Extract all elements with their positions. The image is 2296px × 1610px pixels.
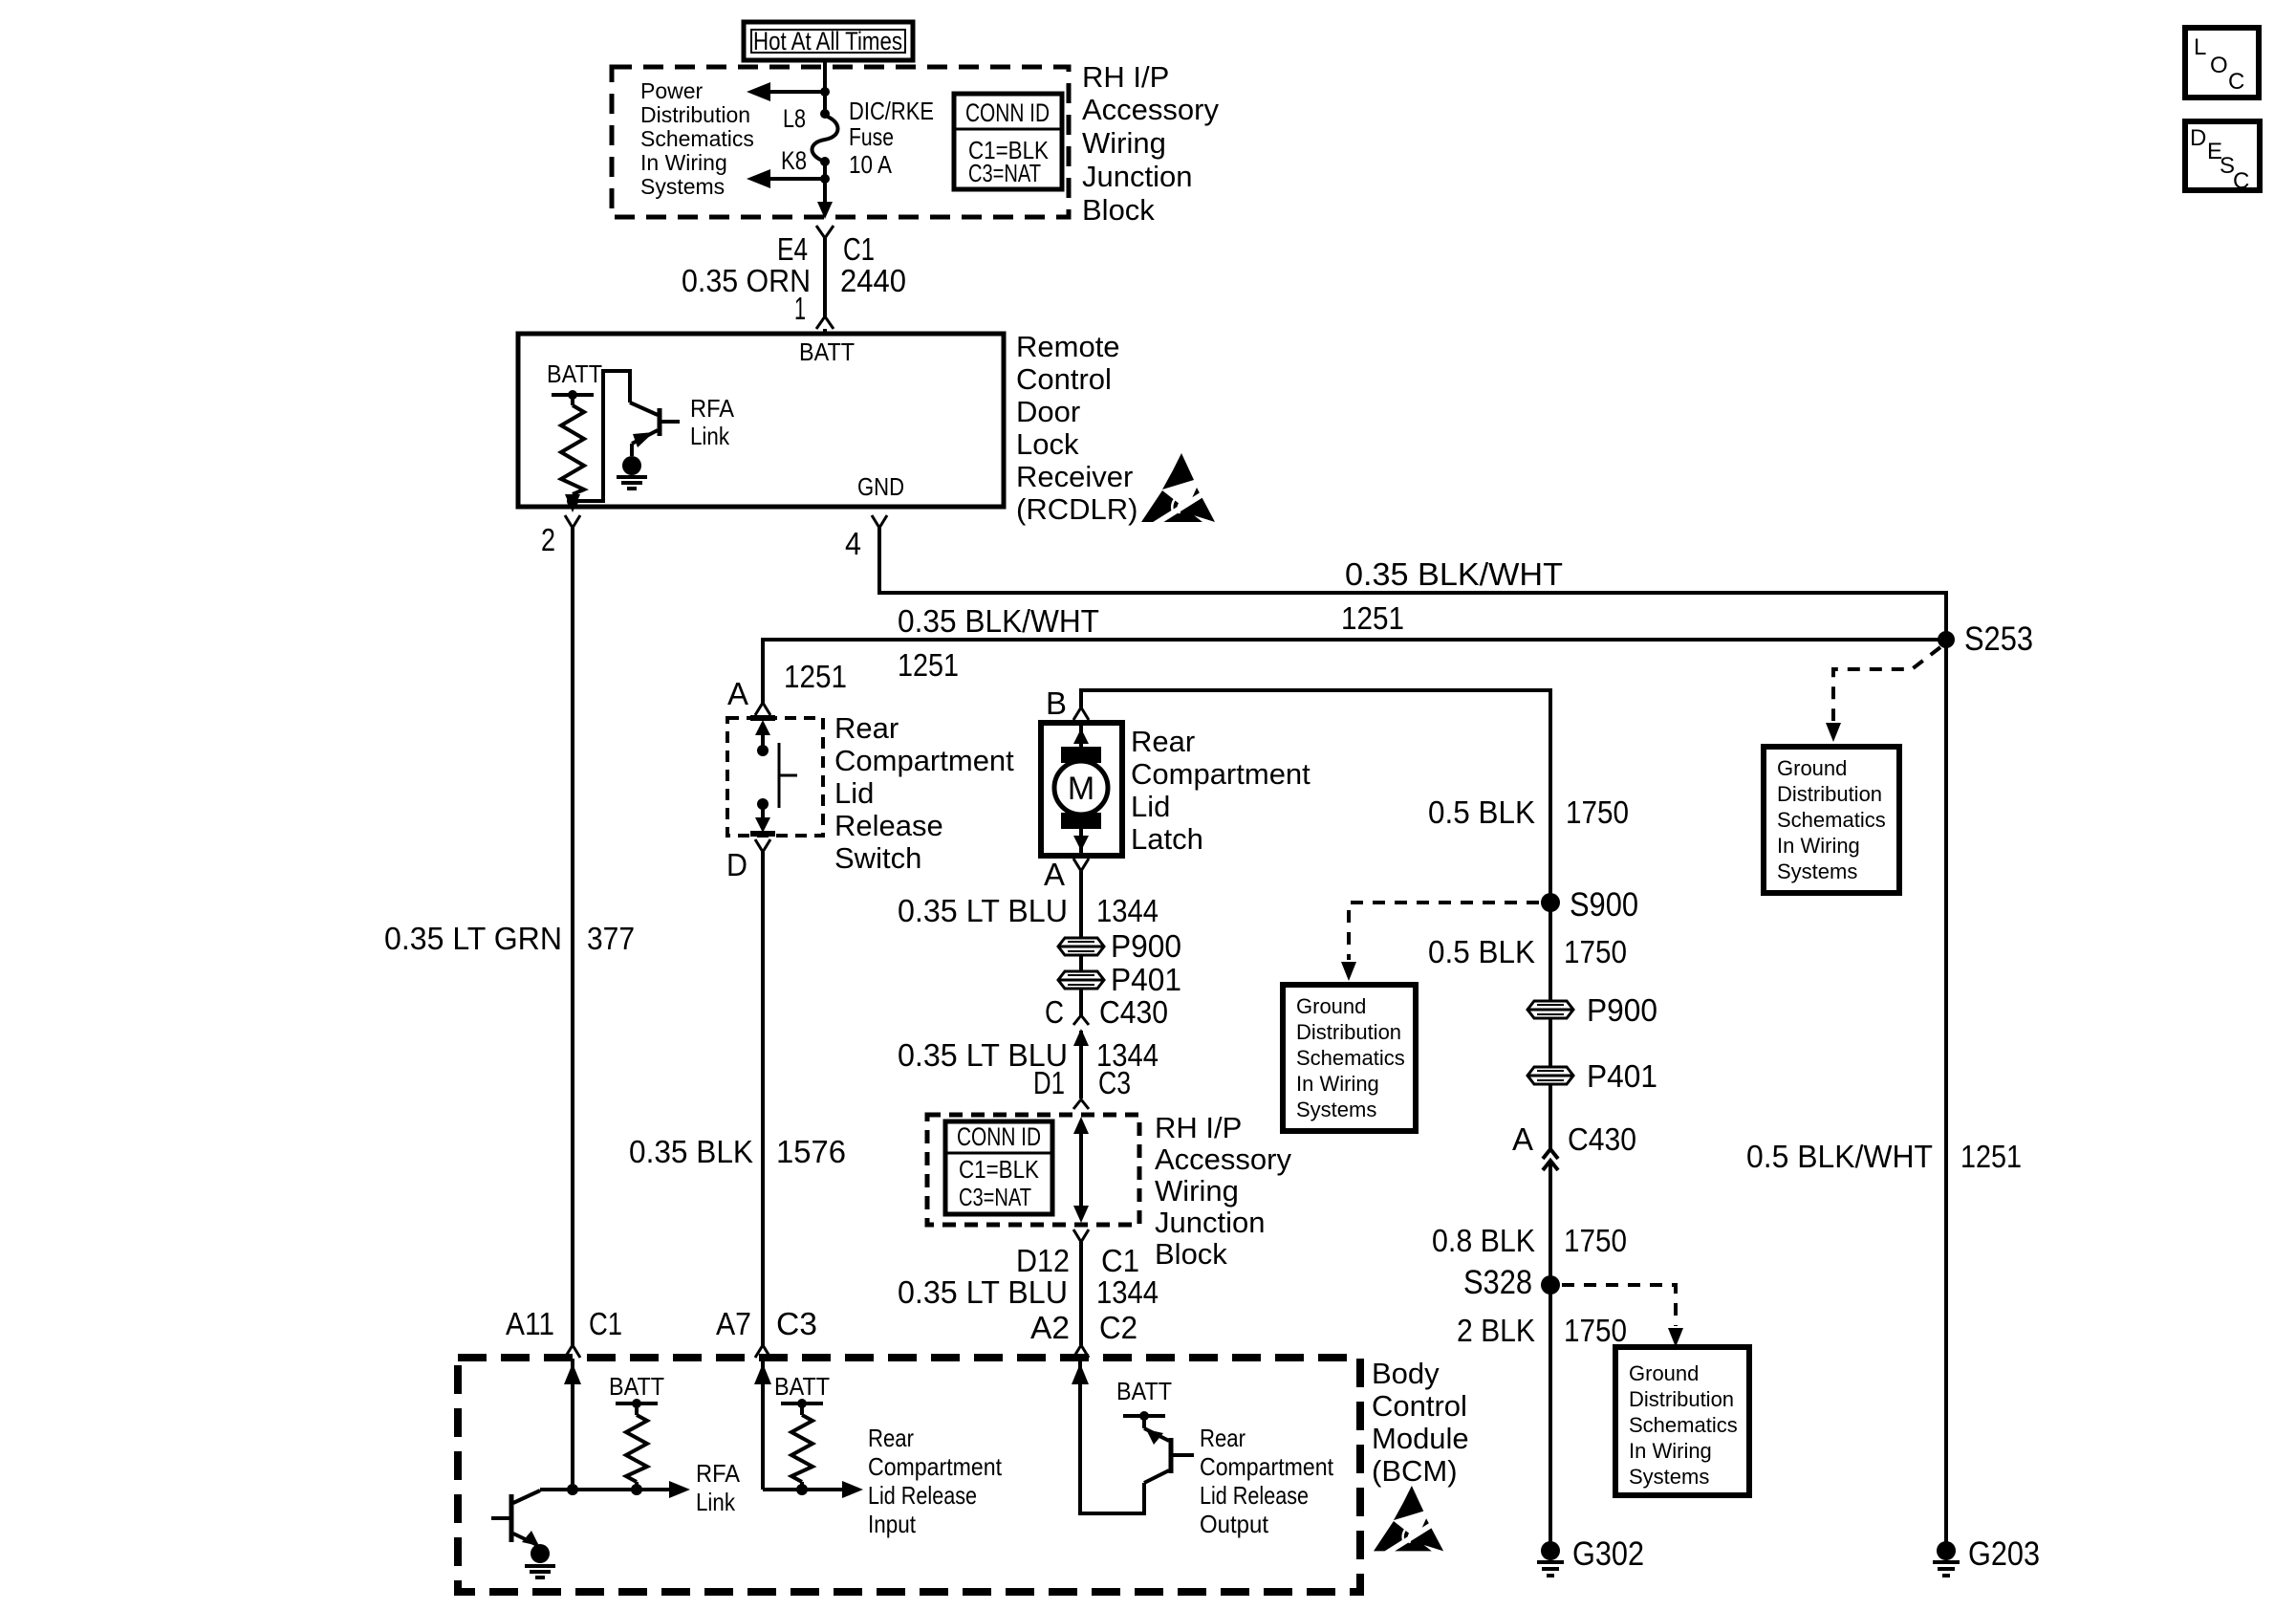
svg-text:Door: Door	[1016, 395, 1080, 428]
svg-text:Output: Output	[1200, 1510, 1269, 1538]
box CONN ID (lower)	[945, 1121, 1052, 1214]
svg-text:Junction: Junction	[1155, 1206, 1265, 1239]
svg-text:RH I/P: RH I/P	[1082, 60, 1169, 94]
svg-text:O: O	[2210, 53, 2228, 78]
svg-text:A2: A2	[1030, 1310, 1070, 1345]
splice S253	[1938, 620, 2033, 658]
connector chevron below junction block	[1073, 1229, 1089, 1242]
box CONN ID (top)	[954, 94, 1062, 189]
svg-text:Accessory: Accessory	[1155, 1142, 1291, 1176]
svg-text:Schematics: Schematics	[1296, 1046, 1405, 1070]
label 0.8 BLK 1750	[1432, 1223, 1627, 1258]
box note Ground Distribution (lower right)	[1615, 1347, 1749, 1495]
pin A11 / cavity C1 labels	[506, 1306, 622, 1341]
svg-text:Lid Release: Lid Release	[1200, 1481, 1309, 1510]
connector P900 (right)	[1527, 992, 1657, 1028]
wire 0.5 BLK 1750 (S900 down)	[1549, 903, 1552, 1001]
box S1 Rear Compartment Lid Release Switch (dashed)	[727, 718, 823, 836]
node junction at feed	[820, 87, 830, 97]
node A11/RFA junction	[567, 1484, 578, 1495]
wire below fuse	[823, 162, 827, 205]
label DIC/RKE Fuse 10 A	[849, 97, 934, 179]
wire 0.35 LT BLU 1344 (latch to P900)	[1079, 871, 1083, 937]
connector chevron A11	[565, 1345, 580, 1358]
svg-text:Systems: Systems	[1777, 859, 1857, 883]
svg-text:C1=BLK: C1=BLK	[959, 1155, 1040, 1184]
svg-text:C3: C3	[1098, 1065, 1131, 1100]
svg-text:Systems: Systems	[1296, 1098, 1376, 1121]
svg-text:BATT: BATT	[547, 359, 602, 388]
svg-text:C1: C1	[589, 1306, 622, 1341]
svg-text:0.35 LT GRN: 0.35 LT GRN	[384, 921, 562, 956]
svg-text:0.5 BLK: 0.5 BLK	[1428, 794, 1535, 830]
svg-text:1251: 1251	[898, 647, 959, 683]
connector chevron C430	[1073, 1015, 1089, 1025]
svg-text:E4: E4	[777, 231, 808, 267]
svg-text:D: D	[2190, 125, 2206, 151]
switch S1 contacts	[750, 718, 797, 834]
wire between P900 and P401	[1079, 955, 1083, 971]
svg-text:Control: Control	[1016, 362, 1112, 396]
resistor (BCM pull-up 2)	[781, 1399, 823, 1490]
svg-text:In Wiring: In Wiring	[1296, 1072, 1379, 1096]
resistor R (RCDLR pull-up)	[552, 390, 594, 501]
svg-text:0.35 BLK/WHT: 0.35 BLK/WHT	[1345, 556, 1563, 592]
svg-text:Module: Module	[1372, 1422, 1469, 1455]
ground (RCDLR internal)	[617, 456, 647, 489]
svg-text:Lock: Lock	[1016, 427, 1079, 461]
note Power Distribution Schematics In Wiring Systems	[640, 78, 754, 199]
connector chevron D	[755, 839, 770, 852]
wire through junction block with arrows	[1073, 1117, 1089, 1223]
svg-text:Remote: Remote	[1016, 330, 1120, 363]
box DESC tab	[2185, 121, 2260, 194]
svg-text:C: C	[2233, 168, 2249, 194]
label 2 BLK 1750	[1457, 1313, 1627, 1348]
svg-text:Latch: Latch	[1131, 822, 1203, 856]
pin C / connector C430 labels	[1045, 994, 1168, 1030]
label 0.35 BLK 1576	[629, 1134, 846, 1169]
label 0.5 BLK/WHT 1251	[1746, 1139, 2022, 1174]
box note Ground Distribution (upper right)	[1764, 747, 1899, 893]
svg-text:DIC/RKE: DIC/RKE	[849, 97, 934, 125]
svg-text:Distribution: Distribution	[1296, 1020, 1401, 1044]
wire 0.35 LT BLU 1344 (junction block to BCM)	[1079, 1242, 1083, 1345]
ESD symbol (BCM)	[1374, 1486, 1443, 1554]
dashed reference S253 to ground note	[1826, 647, 1940, 742]
svg-text:In Wiring: In Wiring	[640, 150, 727, 175]
svg-text:A: A	[727, 676, 748, 711]
svg-text:Schematics: Schematics	[1629, 1413, 1738, 1437]
svg-text:RFA: RFA	[690, 394, 735, 423]
label 0.35 LT GRN 377	[384, 921, 635, 956]
svg-text:1750: 1750	[1566, 794, 1629, 830]
svg-text:C: C	[1045, 994, 1064, 1030]
transistor Q3 (lid release output, PNP)	[1123, 1411, 1194, 1483]
svg-text:C430: C430	[1568, 1121, 1636, 1157]
svg-text:C430: C430	[1099, 994, 1168, 1030]
svg-text:C3=NAT: C3=NAT	[968, 159, 1041, 187]
fuse DIC/RKE 10 A	[812, 109, 838, 166]
label 0.5 BLK 1750 (1)	[1428, 794, 1629, 830]
svg-text:Input: Input	[868, 1510, 917, 1538]
svg-text:Lid: Lid	[834, 776, 874, 810]
svg-text:1344: 1344	[1096, 893, 1159, 928]
resistor (BCM pull-up 1)	[616, 1399, 658, 1490]
svg-text:Hot At All Times: Hot At All Times	[753, 27, 902, 55]
dashed reference S900 to ground note	[1341, 903, 1539, 981]
svg-text:S253: S253	[1964, 620, 2033, 658]
svg-text:Link: Link	[690, 422, 730, 450]
svg-text:BATT: BATT	[1116, 1377, 1172, 1405]
node resistor2/input junction	[796, 1484, 808, 1495]
svg-text:A7: A7	[716, 1306, 751, 1341]
svg-text:K8: K8	[781, 146, 807, 175]
connector chevron A2	[1073, 1345, 1089, 1358]
svg-text:0.35 ORN: 0.35 ORN	[682, 263, 811, 298]
pin A / connector C430 labels (right)	[1512, 1121, 1636, 1157]
connector chevron C430 (right)	[1543, 1149, 1558, 1159]
svg-text:Schematics: Schematics	[640, 126, 754, 151]
svg-text:(BCM): (BCM)	[1372, 1454, 1458, 1488]
svg-text:L: L	[2194, 34, 2206, 60]
svg-text:1251: 1251	[784, 659, 847, 694]
svg-text:G302: G302	[1572, 1535, 1644, 1573]
svg-text:Distribution: Distribution	[1777, 782, 1882, 806]
svg-text:Compartment: Compartment	[868, 1452, 1003, 1481]
label RH I/P Accessory Wiring Junction Block	[1082, 60, 1219, 227]
svg-text:Receiver: Receiver	[1016, 460, 1133, 493]
svg-text:RH I/P: RH I/P	[1155, 1111, 1242, 1144]
wire between P900 and P401 (right)	[1549, 1018, 1552, 1067]
svg-text:Junction: Junction	[1082, 160, 1192, 193]
wire P401 to C430	[1079, 989, 1083, 1015]
svg-text:D: D	[726, 847, 747, 882]
label Rear Compartment Lid Release Output	[1200, 1424, 1334, 1538]
wire P401 to C430 (right)	[1549, 1084, 1552, 1148]
label 0.35 LT BLU 1344 (2)	[898, 1037, 1159, 1073]
svg-text:GND: GND	[857, 472, 904, 501]
svg-text:1251: 1251	[1341, 600, 1404, 636]
svg-text:0.35 BLK: 0.35 BLK	[629, 1134, 753, 1169]
svg-text:Rear: Rear	[868, 1424, 914, 1452]
svg-text:Wiring: Wiring	[1082, 126, 1166, 160]
svg-text:C2: C2	[1099, 1310, 1137, 1345]
svg-text:L8: L8	[783, 104, 806, 133]
pin A7 / cavity C3 labels	[716, 1306, 817, 1341]
label Rear Compartment Lid Latch	[1131, 725, 1310, 856]
svg-text:D1: D1	[1033, 1065, 1065, 1100]
svg-text:C3=NAT: C3=NAT	[959, 1183, 1031, 1211]
pin A2 / cavity C2 labels	[1030, 1310, 1137, 1345]
wire A2 into BCM to output transistor	[1072, 1359, 1144, 1513]
svg-text:Lid: Lid	[1131, 790, 1170, 823]
svg-text:Power: Power	[640, 78, 704, 103]
svg-text:2440: 2440	[840, 263, 906, 298]
svg-text:S328: S328	[1463, 1264, 1532, 1301]
svg-text:Distribution: Distribution	[640, 102, 750, 127]
svg-text:Body: Body	[1372, 1357, 1440, 1390]
svg-text:Rear: Rear	[1200, 1424, 1245, 1452]
svg-text:1344: 1344	[1096, 1274, 1159, 1310]
label RH I/P Accessory Wiring Junction Block (lower)	[1155, 1111, 1291, 1271]
wire 0.35 BLK/WHT 1251 (S253 to switch A)	[763, 640, 1946, 703]
svg-text:0.35 LT BLU: 0.35 LT BLU	[898, 893, 1068, 928]
ground G302	[1537, 1535, 1644, 1576]
arrow out of junction block	[817, 202, 833, 219]
pin D1 / cavity C3 labels	[1033, 1065, 1131, 1100]
splice S900	[1541, 886, 1638, 924]
node resistor-emitter junction	[567, 495, 578, 507]
wire 0.8 BLK 1750 with direction chevron	[1543, 1161, 1558, 1285]
svg-text:C1: C1	[1101, 1243, 1139, 1278]
svg-text:Link: Link	[696, 1488, 736, 1516]
svg-text:Switch: Switch	[834, 841, 921, 875]
svg-text:1: 1	[794, 291, 806, 326]
box LOC tab	[2185, 28, 2259, 98]
svg-text:In Wiring: In Wiring	[1629, 1439, 1712, 1463]
svg-text:S900: S900	[1570, 886, 1638, 924]
arrow to pin 2 inside RCDLR	[565, 494, 580, 512]
svg-text:0.35 BLK/WHT: 0.35 BLK/WHT	[898, 603, 1099, 639]
wire arrow left (bus feed upper)	[747, 82, 825, 101]
svg-text:Control: Control	[1372, 1389, 1467, 1423]
svg-text:Systems: Systems	[640, 174, 725, 199]
svg-text:0.5 BLK/WHT: 0.5 BLK/WHT	[1746, 1139, 1933, 1174]
connector chevron pin 2	[565, 515, 580, 528]
svg-text:RFA: RFA	[696, 1459, 741, 1488]
svg-text:BATT: BATT	[609, 1372, 664, 1401]
label RFA Link	[690, 394, 735, 450]
svg-text:Fuse: Fuse	[849, 122, 894, 151]
svg-text:CONN ID: CONN ID	[965, 98, 1050, 127]
wire A11 into BCM with arrow	[564, 1359, 581, 1490]
wire 2 BLK 1750	[1549, 1285, 1552, 1542]
wire A7 into BCM with arrow	[754, 1359, 771, 1490]
label Body Control Module (BCM)	[1372, 1357, 1469, 1488]
connector P401 (right)	[1527, 1058, 1657, 1094]
label RFA Link (BCM)	[696, 1459, 741, 1516]
svg-text:Distribution: Distribution	[1629, 1387, 1734, 1411]
box note Ground Distribution (middle)	[1283, 985, 1416, 1131]
svg-text:CONN ID: CONN ID	[957, 1122, 1041, 1151]
svg-text:Compartment: Compartment	[1200, 1452, 1334, 1481]
svg-text:BATT: BATT	[799, 337, 855, 366]
wire lid release input with arrow	[763, 1481, 863, 1498]
svg-text:A: A	[1512, 1121, 1533, 1157]
box U1 Remote Control Door Lock Receiver (RCDLR)	[518, 334, 1004, 507]
svg-text:1750: 1750	[1564, 1223, 1627, 1258]
svg-text:BATT: BATT	[774, 1372, 830, 1401]
svg-text:Block: Block	[1082, 193, 1155, 227]
ESD symbol (RCDLR)	[1141, 453, 1215, 525]
svg-text:Ground: Ground	[1777, 756, 1847, 780]
wire internal loop to transistor	[573, 371, 630, 501]
connector E4/C1 chevron (junction block side)	[816, 226, 834, 238]
svg-text:A: A	[1044, 857, 1065, 892]
svg-text:D12: D12	[1016, 1243, 1070, 1278]
wire 0.35 BLK 1576	[761, 852, 765, 1345]
dashed box RH I/P Accessory Wiring Junction Block (lower)	[927, 1115, 1139, 1225]
connector chevron into RCDLR pin 1	[816, 316, 834, 329]
box U2 Body Control Module (BCM) dashed	[458, 1358, 1360, 1592]
connector chevron A	[755, 703, 770, 715]
svg-text:Schematics: Schematics	[1777, 808, 1886, 832]
svg-text:1750: 1750	[1564, 934, 1627, 969]
wire 0.35 LT BLU 1344 (C430 to junction block) with direction arrow	[1073, 1029, 1089, 1099]
label 0.35 ORN 2440	[682, 263, 906, 298]
node resistor1/RFA junction	[631, 1484, 642, 1495]
svg-text:0.35 LT BLU: 0.35 LT BLU	[898, 1274, 1068, 1310]
svg-text:In Wiring: In Wiring	[1777, 834, 1860, 858]
svg-text:Accessory: Accessory	[1082, 93, 1219, 126]
node junction at lower feed	[820, 174, 830, 184]
svg-text:C3: C3	[776, 1306, 817, 1341]
svg-text:0.8 BLK: 0.8 BLK	[1432, 1223, 1535, 1258]
svg-text:Rear: Rear	[834, 711, 899, 745]
pin E4 / cavity C1 labels	[777, 231, 875, 267]
wire 0.5 BLK/WHT 1251 (S253 to G203)	[1944, 640, 1948, 1542]
dashed box RH I/P Accessory Wiring Junction Block (power)	[612, 67, 1069, 217]
connector chevron A7	[755, 1345, 770, 1358]
label 0.5 BLK 1750 (2)	[1428, 934, 1627, 969]
svg-text:Rear: Rear	[1131, 725, 1195, 758]
svg-text:10 A: 10 A	[849, 150, 893, 179]
label 0.35 LT BLU 1344 (1)	[898, 893, 1159, 928]
svg-text:4: 4	[845, 526, 861, 561]
transistor Q (RFA link, PNP)	[630, 402, 680, 456]
box "Hot At All Times"	[744, 22, 913, 60]
svg-text:P900: P900	[1587, 992, 1657, 1028]
wire 0.35 ORN 2440	[823, 238, 827, 316]
svg-text:Ground: Ground	[1296, 994, 1366, 1018]
svg-text:1251: 1251	[1960, 1139, 2022, 1174]
connector chevron B	[1073, 707, 1089, 720]
svg-text:Ground: Ground	[1629, 1361, 1699, 1385]
ground (BCM internal)	[525, 1544, 555, 1577]
svg-text:1750: 1750	[1564, 1313, 1627, 1348]
svg-text:0.5 BLK: 0.5 BLK	[1428, 934, 1535, 969]
wire arrow left (bus feed lower)	[747, 169, 825, 188]
svg-text:Systems: Systems	[1629, 1465, 1709, 1489]
dashed reference S328 to ground note	[1562, 1285, 1683, 1347]
label Remote Control Door Lock Receiver (RCDLR)	[1016, 330, 1137, 526]
pin D12 / cavity C1 labels	[1016, 1243, 1139, 1278]
wire RFA link bus with arrow	[540, 1481, 690, 1498]
svg-text:(RCDLR): (RCDLR)	[1016, 492, 1137, 526]
label Rear Compartment Lid Release Input	[868, 1424, 1003, 1538]
svg-text:1576: 1576	[776, 1134, 846, 1169]
svg-text:2 BLK: 2 BLK	[1457, 1313, 1535, 1348]
wire 0.35 LT GRN 377	[571, 528, 574, 1345]
svg-text:Block: Block	[1155, 1237, 1227, 1271]
connector P401 (left)	[1058, 962, 1181, 997]
splice S328	[1463, 1264, 1560, 1301]
svg-text:G203: G203	[1968, 1535, 2040, 1573]
svg-text:P401: P401	[1587, 1058, 1657, 1094]
wire 0.35 BLK/WHT 1251 (pin 4 to S253)	[879, 528, 1946, 640]
label Rear Compartment Lid Release Switch	[834, 711, 1014, 875]
svg-text:M: M	[1068, 771, 1094, 807]
ground G203	[1933, 1535, 2040, 1576]
svg-text:C: C	[2228, 69, 2244, 95]
transistor Q2 (BCM RFA, to ground)	[491, 1490, 540, 1546]
connector chevron D1/C3	[1073, 1099, 1089, 1109]
wire from Hot At All Times into junction block	[823, 60, 827, 114]
svg-text:377: 377	[587, 921, 635, 956]
svg-text:A11: A11	[506, 1306, 554, 1341]
wire latch feed (B riser and branch to right column)	[1081, 690, 1550, 903]
svg-text:B: B	[1046, 685, 1067, 721]
svg-text:Wiring: Wiring	[1155, 1174, 1239, 1207]
svg-text:Lid Release: Lid Release	[868, 1481, 977, 1510]
motor M1	[1054, 726, 1108, 853]
connector chevron A (latch)	[1073, 859, 1089, 871]
box M1 Rear Compartment Lid Latch	[1041, 723, 1122, 856]
connector chevron pin 4	[872, 515, 887, 528]
label 0.35 LT BLU 1344 (3)	[898, 1274, 1159, 1310]
svg-text:C1: C1	[843, 231, 875, 267]
svg-text:P401: P401	[1111, 962, 1181, 997]
connector P900 (left)	[1058, 928, 1181, 964]
svg-text:Release: Release	[834, 809, 943, 842]
svg-text:2: 2	[541, 522, 555, 557]
svg-text:Compartment: Compartment	[834, 744, 1014, 777]
svg-text:Compartment: Compartment	[1131, 757, 1310, 791]
svg-text:P900: P900	[1111, 928, 1181, 964]
